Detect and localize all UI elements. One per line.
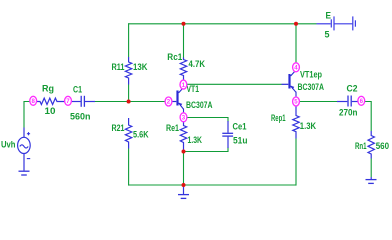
svg-text:270n: 270n bbox=[339, 108, 358, 118]
junction dot bottom rail ground bbox=[182, 183, 186, 187]
svg-text:Rn1: Rn1 bbox=[355, 141, 367, 151]
transistor VT1ep bbox=[282, 70, 297, 97]
svg-text:Rc1: Rc1 bbox=[167, 52, 182, 62]
resistor Rn1 bbox=[368, 131, 374, 159]
wire node 6 to Rn1 corner bbox=[365, 102, 371, 132]
resistor Rg bbox=[37, 98, 65, 104]
svg-text:Rep1: Rep1 bbox=[271, 113, 286, 123]
wire rail to node 4 bbox=[295, 23, 297, 63]
wire R11 column bottom bbox=[128, 85, 130, 102]
battery E bbox=[317, 16, 356, 30]
node 8 bbox=[30, 96, 37, 105]
capacitor C1 bbox=[72, 96, 96, 107]
resistor R11 bbox=[125, 57, 131, 85]
svg-text:Re1: Re1 bbox=[166, 123, 179, 133]
wire node 1 to VT1ep base bbox=[187, 83, 282, 85]
svg-text:C2: C2 bbox=[347, 84, 358, 94]
wire Rn1 bottom to ground bbox=[370, 159, 372, 178]
node 7 bbox=[65, 96, 72, 105]
wire Rep1 bottom to rail bbox=[295, 139, 297, 186]
wire node 3 to Ce1 top bbox=[187, 118, 228, 123]
wire R11 column top bbox=[128, 23, 130, 57]
resistor R21 bbox=[125, 118, 131, 149]
svg-text:VT1: VT1 bbox=[187, 84, 200, 94]
junction dot rail-VT1ep bbox=[294, 22, 298, 26]
svg-text:Ce1: Ce1 bbox=[233, 122, 247, 132]
source Uvh bbox=[18, 128, 31, 171]
wire top rail bbox=[129, 23, 317, 25]
svg-text:5.6K: 5.6K bbox=[133, 130, 149, 140]
node 5 bbox=[293, 97, 300, 106]
svg-text:BC307A: BC307A bbox=[298, 82, 325, 92]
ground main (bottom rail) bbox=[178, 186, 189, 199]
wire bottom rail bbox=[129, 184, 297, 186]
node 3 bbox=[180, 113, 187, 122]
node 2 bbox=[165, 97, 172, 106]
svg-text:C1: C1 bbox=[73, 85, 82, 95]
capacitor C2 bbox=[337, 96, 358, 107]
wire C1 to base junction to node 2 bbox=[95, 101, 166, 103]
svg-text:Rg: Rg bbox=[42, 84, 54, 94]
svg-text:560n: 560n bbox=[70, 112, 91, 122]
svg-text:BC307A: BC307A bbox=[186, 100, 213, 110]
ground at Rn1 bbox=[366, 177, 377, 183]
junction dot base divider bbox=[127, 100, 131, 104]
wire input corner to node 8 bbox=[24, 102, 30, 128]
wire Rc1 column top bbox=[183, 23, 185, 57]
svg-text:1.3K: 1.3K bbox=[300, 121, 317, 131]
wire Re1 junction down to bottom rail bbox=[183, 152, 185, 186]
svg-text:5: 5 bbox=[325, 30, 330, 40]
svg-text:VT1ep: VT1ep bbox=[300, 70, 323, 80]
capacitor Ce1 bbox=[222, 121, 233, 148]
svg-text:51u: 51u bbox=[233, 136, 248, 146]
junction dot rail-Rc1 bbox=[182, 22, 186, 26]
node 6 bbox=[358, 96, 365, 105]
resistor Rc1 bbox=[180, 58, 186, 81]
ground at Uvh bbox=[19, 171, 30, 175]
svg-text:1.3K: 1.3K bbox=[188, 135, 203, 145]
svg-text:560: 560 bbox=[376, 141, 389, 151]
junction dot Re1-Ce1 bbox=[182, 150, 186, 154]
svg-text:4.7K: 4.7K bbox=[189, 59, 206, 69]
wire R21 bottom to rail bbox=[128, 149, 130, 186]
resistor Rep1 bbox=[293, 106, 299, 138]
resistor Re1 bbox=[180, 122, 186, 150]
svg-text:13K: 13K bbox=[133, 62, 148, 72]
wire Ce1 bottom to Re1 junction bbox=[184, 147, 229, 152]
node 1 bbox=[180, 80, 187, 89]
transistor VT1 bbox=[172, 87, 184, 113]
svg-text:E: E bbox=[326, 11, 332, 21]
svg-text:R21: R21 bbox=[112, 123, 125, 133]
wire node 5 to C2 bbox=[300, 101, 338, 103]
svg-text:10: 10 bbox=[45, 106, 56, 116]
svg-text:Uvh: Uvh bbox=[1, 140, 16, 150]
node 4 bbox=[293, 63, 300, 72]
svg-text:R11: R11 bbox=[112, 62, 125, 72]
